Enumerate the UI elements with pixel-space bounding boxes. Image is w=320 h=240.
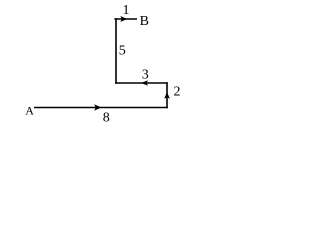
svg-text:5: 5 bbox=[119, 44, 126, 59]
wire branch 2 (right vertical) bbox=[166, 82, 168, 108]
svg-text:8: 8 bbox=[103, 110, 110, 125]
svg-text:A: A bbox=[25, 103, 34, 117]
arrowhead on branch 2 (points up) bbox=[164, 92, 170, 99]
arrowhead on branch 8 (points right) bbox=[94, 104, 101, 110]
svg-text:1: 1 bbox=[123, 3, 130, 18]
wire branch 3 (middle horizontal) bbox=[115, 82, 168, 84]
wire branch 5 (left vertical) bbox=[115, 18, 117, 84]
svg-text:3: 3 bbox=[142, 67, 149, 82]
wire branch 8 (bottom horizontal from A) bbox=[34, 107, 168, 109]
svg-text:2: 2 bbox=[174, 84, 181, 99]
wire branch 1 (top horizontal, node corner to B) bbox=[114, 18, 137, 20]
arrowhead on branch 3 (points left) bbox=[141, 80, 148, 86]
arrowhead on branch 1 (points right) bbox=[120, 16, 127, 22]
svg-text:B: B bbox=[140, 14, 149, 29]
